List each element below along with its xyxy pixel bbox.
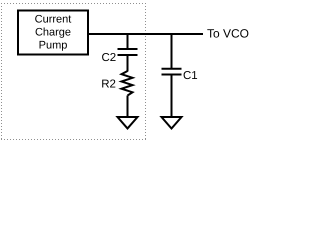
svg-text:Current: Current	[35, 13, 72, 25]
block U1 Current Charge Pump	[18, 11, 88, 55]
wire: charge pump output to VCO	[88, 33, 203, 35]
wire: node to C1 top	[171, 33, 173, 68]
svg-text:To VCO: To VCO	[207, 27, 249, 41]
resistor R2	[122, 71, 133, 96]
svg-text:C2: C2	[102, 52, 117, 64]
ground (below C1)	[162, 117, 182, 129]
ground (below R2)	[118, 117, 138, 129]
dashed enclosure border	[1, 3, 146, 140]
wire: node to C2 top	[127, 33, 129, 48]
svg-text:R2: R2	[101, 79, 116, 91]
svg-text:Pump: Pump	[39, 40, 68, 52]
capacitor C1	[162, 69, 182, 75]
wire: R2 bottom to ground	[127, 96, 129, 118]
capacitor C2	[118, 49, 138, 55]
svg-text:Charge: Charge	[35, 27, 71, 39]
wire: C2 bottom to R2 top	[127, 56, 129, 72]
svg-text:C1: C1	[183, 70, 198, 82]
wire: C1 bottom to ground	[171, 76, 173, 118]
